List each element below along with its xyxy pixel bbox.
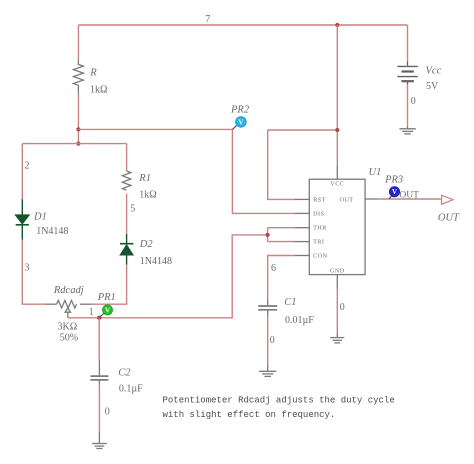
svg-text:0: 0 xyxy=(411,96,416,107)
wire OUT to arrow xyxy=(379,198,442,200)
wire D2 to pot right xyxy=(92,265,127,305)
svg-text:V: V xyxy=(238,118,243,126)
node dot wiper junction xyxy=(97,316,101,320)
svg-text:THR: THR xyxy=(313,225,327,232)
svg-text:C1: C1 xyxy=(284,297,296,308)
svg-text:3: 3 xyxy=(25,263,30,274)
wire net7 horizontal to DIS corner xyxy=(78,129,294,213)
pin stub GND bottom xyxy=(336,275,338,290)
svg-text:50%: 50% xyxy=(60,333,78,344)
wire VCC vertical from top xyxy=(336,25,338,166)
svg-text:5V: 5V xyxy=(426,81,439,92)
svg-text:R1: R1 xyxy=(138,173,151,184)
svg-text:RST: RST xyxy=(313,196,326,203)
svg-text:1: 1 xyxy=(89,307,94,318)
svg-text:U1: U1 xyxy=(369,167,382,178)
pin stub OUT xyxy=(365,198,378,200)
wire RST corner to VCC junction xyxy=(268,129,338,131)
svg-text:1kΩ: 1kΩ xyxy=(90,84,107,95)
capacitor C1 xyxy=(258,299,277,316)
svg-text:D2: D2 xyxy=(139,239,154,250)
wire lower horizontal between branches xyxy=(22,143,126,145)
pin stub RST xyxy=(295,198,310,200)
wire RST branch xyxy=(268,130,295,199)
OUT arrow xyxy=(442,195,453,204)
wire D1 to pot left xyxy=(22,240,45,305)
svg-text:0: 0 xyxy=(105,406,110,417)
node dot VCC RST junction xyxy=(335,128,339,132)
svg-text:Potentiometer Rdcadj adjusts t: Potentiometer Rdcadj adjusts the duty cy… xyxy=(163,396,395,406)
probe PR1 xyxy=(99,305,112,318)
wire C1 to ground xyxy=(267,316,269,367)
probe PR2 xyxy=(232,117,246,130)
diode D2 xyxy=(120,234,133,265)
wire battery top xyxy=(407,25,409,61)
wire left branch to D1 xyxy=(21,144,23,200)
resistor R1 xyxy=(122,171,130,190)
svg-text:5: 5 xyxy=(130,203,135,214)
svg-text:OUT: OUT xyxy=(340,196,354,203)
wire R1 to D2 xyxy=(126,193,128,234)
potentiometer Rdcadj xyxy=(45,300,92,317)
wire right branch to R1 xyxy=(126,144,128,171)
pin stub THR xyxy=(295,227,310,229)
resistor R xyxy=(73,60,83,94)
capacitor C2 xyxy=(90,361,108,385)
wire wiper junction down to C2 xyxy=(98,318,100,361)
svg-text:PR3: PR3 xyxy=(384,175,403,186)
svg-text:0: 0 xyxy=(270,335,275,346)
svg-text:OUT: OUT xyxy=(399,190,419,200)
svg-text:OUT: OUT xyxy=(438,213,460,224)
svg-text:0: 0 xyxy=(340,302,345,313)
wire top net 7 horizontal xyxy=(78,24,407,26)
pin stub TRI xyxy=(295,241,310,243)
svg-text:0.01µF: 0.01µF xyxy=(285,315,314,326)
svg-text:3KΩ: 3KΩ xyxy=(58,321,78,332)
node dot at R bottom / net7 branch xyxy=(76,127,80,131)
svg-text:PR1: PR1 xyxy=(97,292,116,303)
svg-text:1N4148: 1N4148 xyxy=(140,256,172,267)
svg-text:R: R xyxy=(89,68,97,79)
node dot at lower branch xyxy=(76,142,80,146)
diode D1 xyxy=(16,199,29,240)
wire GND pin down xyxy=(336,289,338,333)
svg-text:Vcc: Vcc xyxy=(426,66,442,77)
pin stub CON xyxy=(295,255,310,257)
svg-text:6: 6 xyxy=(271,263,276,274)
pin stub VCC top xyxy=(336,166,338,179)
wire C2 to ground xyxy=(98,385,100,432)
svg-text:CON: CON xyxy=(313,253,327,260)
wire CON branch xyxy=(268,256,295,300)
svg-text:2: 2 xyxy=(25,161,30,172)
wire battery to ground xyxy=(407,85,409,126)
svg-text:PR2: PR2 xyxy=(230,104,250,115)
svg-text:VCC: VCC xyxy=(330,181,344,188)
svg-text:7: 7 xyxy=(205,14,210,25)
ground under 555 xyxy=(330,334,344,343)
node dot top wire xyxy=(335,23,339,27)
wire wiper net to THR TRI xyxy=(68,228,295,318)
battery Vcc 5V xyxy=(397,61,417,84)
node dot THR TRI junction xyxy=(266,233,270,237)
svg-text:DIS: DIS xyxy=(313,210,324,217)
probe PR3 xyxy=(389,187,400,199)
svg-text:V: V xyxy=(105,306,110,314)
ground under C1 xyxy=(259,366,276,376)
svg-text:with slight effect on frequenc: with slight effect on frequency. xyxy=(163,410,336,420)
ground under battery xyxy=(399,126,415,134)
svg-text:V: V xyxy=(392,188,397,196)
svg-text:GND: GND xyxy=(330,267,345,274)
svg-text:TRI: TRI xyxy=(313,239,324,246)
ground under C2 xyxy=(92,432,107,449)
svg-text:D1: D1 xyxy=(33,212,47,223)
svg-text:Rdcadj: Rdcadj xyxy=(53,285,84,296)
svg-text:1kΩ: 1kΩ xyxy=(139,189,156,200)
IC U1 555 timer box xyxy=(309,179,365,274)
pin stub DIS xyxy=(295,212,310,214)
svg-text:1N4148: 1N4148 xyxy=(36,226,68,237)
wire R top vertical xyxy=(77,25,79,60)
wire R bottom vertical xyxy=(77,93,79,143)
svg-text:0.1µF: 0.1µF xyxy=(119,383,143,394)
svg-text:C2: C2 xyxy=(118,367,131,378)
